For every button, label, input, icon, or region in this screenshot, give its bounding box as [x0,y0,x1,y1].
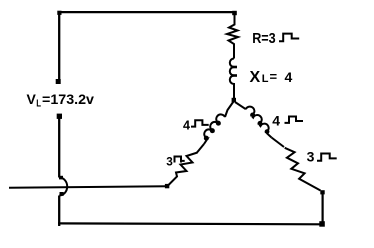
svg-text:V: V [27,91,37,107]
svg-text:R=3: R=3 [252,30,276,47]
svg-text:3: 3 [166,155,173,169]
svg-text:4: 4 [272,112,280,128]
svg-text:X: X [250,69,261,86]
svg-text:4: 4 [285,69,293,85]
svg-text:L: L [262,73,269,85]
svg-text:L: L [36,99,41,110]
svg-text:=173.2v: =173.2v [42,92,95,107]
svg-text:4: 4 [183,118,190,132]
svg-text:=: = [270,69,278,84]
svg-text:3: 3 [307,149,315,165]
